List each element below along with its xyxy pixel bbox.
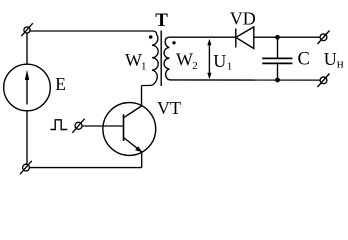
svg-text:U: U <box>324 49 337 69</box>
svg-text:W: W <box>125 50 142 70</box>
wire from X1 down to source E <box>26 33 28 64</box>
wire from source E down to X2 <box>26 111 28 165</box>
wire base input to transistor <box>82 125 124 127</box>
capacitor C <box>262 37 292 80</box>
terminal X3 (base input) <box>72 119 84 133</box>
junction node bottom <box>275 78 280 83</box>
winding W1 (primary) <box>142 31 159 86</box>
svg-text:2: 2 <box>192 60 198 72</box>
svg-text:1: 1 <box>141 61 147 73</box>
svg-text:T: T <box>155 10 168 31</box>
junction node top <box>275 35 280 40</box>
transformer T core <box>160 31 162 87</box>
wire secondary top to diode <box>170 36 236 38</box>
svg-text:н: н <box>337 56 344 71</box>
terminal X4 (output top) <box>318 31 330 45</box>
diode VD <box>236 27 254 49</box>
svg-text:U: U <box>213 51 226 71</box>
svg-text:C: C <box>298 49 310 69</box>
voltage arrow U1 <box>207 39 211 79</box>
terminal X2 (input bottom) <box>20 161 32 174</box>
wire bottom rail X2 to emitter <box>29 167 141 169</box>
winding W2 (secondary) <box>164 37 171 80</box>
svg-text:VD: VD <box>230 9 256 29</box>
svg-text:E: E <box>55 74 66 94</box>
transistor VT <box>103 103 156 156</box>
wire diode to output top terminal <box>254 36 320 38</box>
terminal X5 (output bottom) <box>318 74 330 88</box>
wire from X1 to winding W1 top <box>30 30 153 32</box>
polarity dot W2 <box>172 41 175 44</box>
terminal X1 (input top) <box>21 23 33 36</box>
wire secondary bottom rail <box>171 79 321 81</box>
svg-text:VT: VT <box>157 98 181 118</box>
svg-text:1: 1 <box>227 61 233 73</box>
svg-text:W: W <box>176 50 193 70</box>
polarity dot W1 <box>149 35 153 39</box>
wire emitter lead <box>141 152 143 168</box>
pulse input symbol <box>51 120 68 130</box>
voltage source E (circle with up arrow) <box>4 64 51 111</box>
wire collector lead to W1 bottom <box>141 86 143 107</box>
